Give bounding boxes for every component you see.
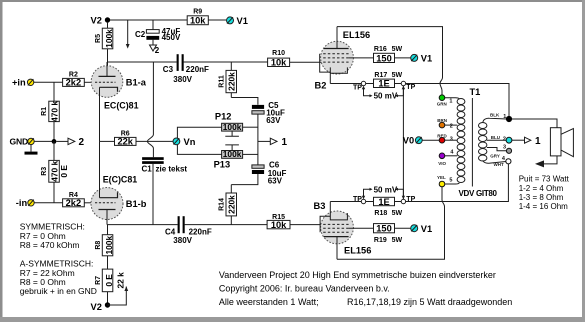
svg-text:P13: P13 — [214, 160, 231, 170]
triode B1-a — [91, 62, 147, 141]
svg-text:5W: 5W — [392, 72, 403, 79]
speaker — [550, 128, 573, 157]
resistor R1 — [41, 101, 59, 122]
svg-text:BRN: BRN — [437, 118, 447, 123]
svg-text:100k: 100k — [223, 149, 242, 159]
svg-text:100k: 100k — [104, 236, 114, 255]
ground symbol — [25, 145, 38, 155]
svg-text:22 k: 22 k — [116, 272, 126, 289]
pentode B2 — [315, 27, 371, 91]
wire -in to R4 — [34, 202, 62, 204]
test point TP right top — [395, 81, 416, 91]
node V2 top — [91, 16, 111, 26]
wire stub arrow bottom — [108, 286, 129, 305]
svg-text:R6: R6 — [121, 131, 130, 138]
resistor R11 — [218, 62, 236, 98]
svg-text:R14: R14 — [218, 198, 225, 211]
svg-text:VDV GIT80: VDV GIT80 — [459, 189, 498, 198]
svg-text:EC(C)81: EC(C)81 — [104, 101, 139, 111]
svg-text:R9: R9 — [193, 8, 202, 15]
svg-text:1-3 = 8: 1-3 = 8 — [519, 193, 545, 202]
svg-text:R4: R4 — [69, 192, 78, 199]
pin BLU 2 secondary with arrow 1 — [487, 135, 541, 147]
svg-text:50 mV: 50 mV — [374, 92, 398, 101]
terminal V1 (R16) — [395, 54, 433, 64]
svg-text:-in: -in — [16, 198, 28, 208]
svg-text:1E: 1E — [378, 197, 389, 207]
potentiometer P12 — [215, 112, 258, 137]
pin BLK 1 secondary — [483, 113, 512, 123]
svg-text:220nF: 220nF — [189, 227, 212, 236]
capacitor C5 — [252, 101, 285, 165]
svg-text:10k: 10k — [190, 16, 206, 26]
svg-text:C2: C2 — [135, 30, 146, 39]
svg-text:B1-b: B1-b — [126, 199, 147, 209]
svg-text:V1: V1 — [421, 224, 432, 234]
output power table — [519, 175, 570, 211]
potentiometer P13 — [214, 145, 258, 170]
resistor R6 — [115, 131, 137, 147]
svg-text:2k2: 2k2 — [66, 198, 82, 208]
resistor R9 — [187, 8, 208, 25]
arrow net 2 right — [56, 137, 84, 148]
wire GND to junction — [34, 140, 54, 142]
wire R4 to B1-b grid — [84, 202, 95, 204]
wire R15 to B3 grid — [290, 224, 323, 226]
wire R3 to -in row — [53, 182, 55, 203]
svg-text:1: 1 — [449, 99, 452, 105]
wire speaker return with arrow — [535, 156, 557, 168]
wire V2 top rail — [108, 19, 227, 21]
wire BLK to speaker — [512, 119, 557, 128]
svg-text:5W: 5W — [392, 237, 403, 244]
svg-text:E(C)C81: E(C)C81 — [103, 175, 138, 185]
terminal GND — [10, 137, 35, 147]
svg-text:63V: 63V — [268, 177, 283, 186]
resistor R17 — [366, 72, 403, 89]
capacitor C6 — [231, 161, 286, 186]
measure 50 mV top — [362, 86, 405, 101]
svg-text:T1: T1 — [470, 87, 481, 97]
svg-text:220nF: 220nF — [186, 65, 209, 74]
svg-text:0 E: 0 E — [59, 165, 69, 178]
svg-text:B1-a: B1-a — [126, 77, 147, 87]
svg-text:470 k: 470 k — [49, 160, 59, 181]
resistor R4 — [63, 192, 85, 208]
svg-text:P12: P12 — [215, 112, 232, 122]
wire B3 g2 to R19 — [349, 227, 374, 229]
resistor R10 — [268, 50, 290, 68]
svg-text:220k: 220k — [227, 72, 237, 91]
svg-text:GRN: GRN — [437, 101, 447, 106]
primary coil — [457, 99, 465, 183]
wire Vn split to P12 and P13 — [177, 127, 221, 154]
svg-text:R1: R1 — [41, 107, 48, 116]
svg-text:gebruik + in en GND: gebruik + in en GND — [20, 286, 97, 296]
svg-text:63V: 63V — [266, 116, 281, 125]
terminal Vn — [173, 137, 196, 147]
wire R6 to Vn node — [136, 140, 173, 142]
wire B2 plate to transformer GRN — [337, 27, 443, 95]
resistor R15 — [267, 214, 290, 230]
terminal V1 top — [227, 16, 248, 26]
wire plate tap down to Vn node (curved join) — [147, 62, 153, 157]
wire stub to arrow (top) — [126, 20, 130, 49]
svg-text:2: 2 — [450, 124, 453, 130]
terminal V1 (R19) — [395, 224, 433, 234]
wire plate line bottom — [107, 224, 267, 226]
svg-text:1-4 = 16 Ohm: 1-4 = 16 Ohm — [519, 202, 568, 211]
svg-text:R7: R7 — [95, 276, 102, 285]
credits text — [219, 270, 512, 307]
svg-text:1: 1 — [535, 136, 541, 147]
svg-text:Alle weerstanden 1 Watt;: Alle weerstanden 1 Watt; — [219, 297, 319, 307]
svg-text:B2: B2 — [315, 81, 327, 91]
svg-text:1-2 = 4: 1-2 = 4 — [519, 184, 545, 193]
wire junction down to R3 — [53, 141, 55, 160]
svg-text:V0: V0 — [403, 135, 414, 145]
svg-text:Copyright 2006: Ir. bureau Van: Copyright 2006: Ir. bureau Vanderveen b.… — [219, 283, 390, 293]
note SYMMETRISCH — [20, 222, 97, 297]
capacitor C3 — [163, 54, 209, 84]
test point TP right bottom — [395, 196, 416, 204]
transformer core — [471, 98, 473, 187]
wire R11 to C5 — [231, 98, 258, 105]
resistor R16 — [374, 46, 403, 64]
svg-text:V1: V1 — [421, 54, 432, 64]
svg-text:100k: 100k — [223, 122, 242, 132]
svg-text:220k: 220k — [227, 195, 237, 214]
resistor R7 — [95, 269, 126, 292]
resistor R5 — [95, 22, 114, 76]
svg-text:EL156: EL156 — [344, 245, 371, 255]
svg-text:1: 1 — [503, 114, 506, 120]
resistor R8 — [95, 225, 114, 270]
node GND junction — [52, 139, 57, 144]
pin BRN 2 — [437, 118, 457, 130]
pin GRN 1 — [437, 95, 460, 107]
svg-text:R5: R5 — [95, 34, 102, 43]
svg-text:zie tekst: zie tekst — [156, 165, 188, 174]
capacitor C4 — [165, 216, 212, 245]
pin RED 3 — [437, 134, 457, 143]
wire B3 plate to transformer YEL — [337, 187, 445, 259]
svg-text:450V: 450V — [162, 33, 181, 42]
svg-text:5W: 5W — [392, 46, 403, 53]
wire +in to R2 — [34, 81, 63, 83]
terminal -in — [16, 198, 34, 208]
svg-text:R8 = 470 kOhm: R8 = 470 kOhm — [20, 240, 80, 250]
wire R10 to B2 grid — [290, 61, 324, 63]
wire B2 g2 to R16 — [349, 57, 374, 59]
svg-text:2: 2 — [155, 46, 160, 55]
svg-text:B3: B3 — [314, 201, 326, 211]
triode B1-b — [91, 141, 147, 224]
svg-text:V2: V2 — [91, 302, 102, 312]
svg-text:R8: R8 — [95, 241, 102, 250]
svg-text:GND: GND — [10, 137, 29, 147]
svg-text:1: 1 — [282, 137, 288, 148]
wire R2 to B1-a grid — [84, 81, 95, 83]
resistor R2 — [63, 71, 85, 87]
svg-text:470 k: 470 k — [49, 101, 59, 122]
svg-text:WHT: WHT — [494, 162, 504, 167]
svg-text:TP: TP — [406, 84, 415, 91]
svg-text:5W: 5W — [392, 210, 403, 217]
pin WHT 4 secondary — [483, 156, 511, 167]
svg-text:380V: 380V — [173, 236, 192, 245]
arrow ground ref 2 under C2 — [150, 45, 160, 55]
svg-text:YEL: YEL — [437, 175, 446, 180]
svg-text:10k: 10k — [271, 220, 287, 230]
svg-text:VIO: VIO — [438, 161, 446, 166]
svg-text:R10: R10 — [272, 50, 285, 57]
terminal V0 — [403, 135, 439, 145]
svg-text:1E: 1E — [378, 79, 389, 89]
svg-text:R15: R15 — [272, 214, 285, 221]
svg-text:R16: R16 — [374, 46, 387, 53]
svg-text:+in: +in — [12, 78, 26, 88]
node V2 bottom — [91, 302, 111, 312]
resistor R14 — [218, 185, 236, 225]
resistor R19 — [374, 224, 403, 245]
svg-text:R11: R11 — [218, 75, 225, 88]
wire plate line top — [107, 61, 268, 63]
pentode B3 — [314, 201, 372, 259]
wire +in junction down to R1 — [53, 82, 55, 101]
measure 50 mV bottom — [362, 186, 405, 200]
svg-text:R3: R3 — [41, 167, 48, 176]
resistor R18 — [366, 197, 403, 217]
svg-text:BLK: BLK — [490, 113, 500, 118]
secondary coil — [479, 123, 487, 162]
svg-text:100k: 100k — [104, 29, 114, 48]
svg-text:2: 2 — [79, 137, 85, 148]
terminal +in — [12, 78, 34, 88]
svg-text:2k2: 2k2 — [66, 78, 82, 88]
svg-text:C3: C3 — [163, 65, 174, 74]
svg-text:Ohm: Ohm — [546, 193, 564, 202]
svg-text:V1: V1 — [237, 16, 248, 26]
wire cathode R6 row — [100, 140, 115, 142]
wire TP line to WHT — [405, 164, 508, 202]
svg-text:BLU: BLU — [491, 135, 500, 140]
svg-text:RED: RED — [437, 134, 447, 139]
svg-text:C1: C1 — [142, 165, 153, 174]
svg-text:150: 150 — [376, 224, 392, 234]
wire R7 to V2 bottom — [107, 292, 109, 305]
svg-text:Vanderveen Project 20 High En: Vanderveen Project 20 High End symmetris… — [219, 270, 496, 280]
svg-text:Vn: Vn — [184, 137, 196, 147]
wire TP line to BLK — [405, 84, 509, 117]
pin YEL 5 — [437, 175, 459, 187]
svg-text:V2: V2 — [91, 16, 102, 26]
svg-text:150: 150 — [376, 53, 392, 63]
svg-text:50 mV: 50 mV — [374, 186, 398, 195]
svg-text:R16,17,18,19 zijn 5 Watt draad: R16,17,18,19 zijn 5 Watt draadgewonden — [347, 297, 512, 307]
svg-text:10k: 10k — [271, 58, 287, 68]
capacitor C1 — [142, 157, 188, 224]
test point TP left bottom — [330, 196, 365, 204]
svg-text:R18: R18 — [374, 210, 387, 217]
svg-text:EL156: EL156 — [343, 30, 370, 40]
svg-text:3: 3 — [450, 136, 453, 142]
svg-text:TP: TP — [353, 196, 362, 203]
svg-text:380V: 380V — [173, 75, 192, 84]
svg-text:0 E: 0 E — [104, 274, 114, 287]
svg-text:R17: R17 — [374, 72, 387, 79]
resistor R3 — [41, 160, 69, 182]
wire TP vertical link — [402, 86, 404, 200]
pin VIO 4 — [438, 150, 457, 167]
svg-text:GRY: GRY — [490, 153, 500, 158]
arrow net 1 mid — [258, 137, 288, 148]
capacitor C2 — [135, 20, 181, 45]
svg-text:5: 5 — [449, 178, 452, 184]
pin GRY 3 secondary — [487, 145, 512, 159]
svg-text:R19: R19 — [374, 237, 387, 244]
wire R1 to GND row — [53, 122, 55, 142]
svg-text:3: 3 — [503, 145, 506, 151]
svg-text:Ohm: Ohm — [546, 184, 564, 193]
svg-text:Puit = 73 Watt: Puit = 73 Watt — [519, 175, 570, 184]
svg-text:TP: TP — [353, 84, 362, 91]
test point TP left top — [330, 81, 365, 91]
svg-text:22k: 22k — [117, 137, 133, 147]
svg-text:R2: R2 — [69, 71, 78, 78]
svg-text:2: 2 — [503, 136, 506, 142]
